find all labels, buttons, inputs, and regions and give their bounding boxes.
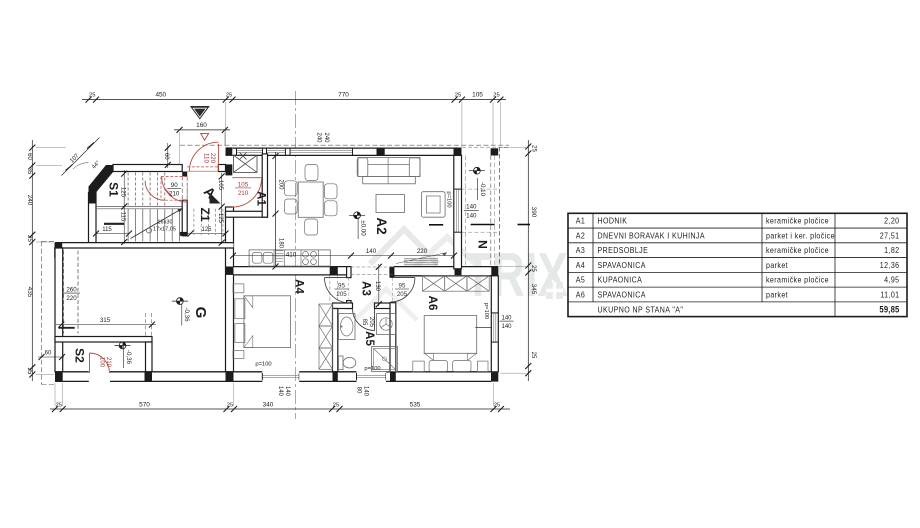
dim diagonal 107 44deg [62,138,102,176]
svg-text:140: 140 [466,204,477,211]
threshold bar terrace [471,224,495,226]
svg-text:315: 315 [100,317,111,324]
label A2 [374,217,389,234]
garage door dashed [63,251,80,334]
svg-text:S1: S1 [107,182,121,197]
dim A2 window 140/140 [464,204,479,220]
svg-text:-0,10: -0,10 [479,182,486,197]
pillar A2 SE [455,269,462,276]
label A4 [293,279,305,294]
label p=100 A6 east [483,303,489,319]
svg-text:A3: A3 [360,281,372,296]
pillar garage NW [55,243,63,248]
svg-text:12,36: 12,36 [880,260,900,270]
wall A1 east [262,154,267,217]
eaves dashed left [42,241,56,384]
stair treads S1 [96,173,223,242]
svg-text:140: 140 [362,386,368,397]
svg-text:220: 220 [209,153,216,164]
svg-text:205: 205 [368,317,374,328]
terrace N dashed boundary [462,147,500,267]
wall A6 north [394,267,498,276]
svg-text:205: 205 [397,291,408,298]
label A3 [360,281,372,296]
svg-text:±0,00: ±0,00 [359,220,366,236]
label p=100 A5 south [364,366,380,372]
svg-text:A5: A5 [363,331,375,346]
dim line right [525,140,537,381]
svg-text:A2: A2 [374,217,389,234]
svg-text:25: 25 [494,402,500,408]
svg-text:25: 25 [26,368,32,375]
wall A1 south [226,211,268,217]
svg-text:parket i ker. pločice: parket i ker. pločice [766,231,835,241]
label A1 [255,191,267,206]
svg-text:130: 130 [374,281,380,292]
wall Z1/G east spine [226,207,234,372]
svg-text:parket: parket [766,260,788,270]
dim line top [82,91,506,102]
sofa A2 [357,158,420,184]
svg-text:200: 200 [278,179,284,190]
wall top main (A1/A2 north) [233,148,462,155]
door entrance 110/220 [187,133,218,171]
dim A5 window 80/140 rot [356,386,369,397]
label S1 [107,182,121,197]
svg-text:25: 25 [455,92,461,98]
section mark A with triangle [201,183,221,203]
svg-text:140: 140 [501,324,512,330]
level mark N -0,10 [469,167,486,200]
svg-text:260: 260 [66,287,77,294]
svg-text:105: 105 [472,91,483,98]
shower A5 [372,347,398,372]
svg-text:A1: A1 [576,216,585,226]
wall corner entrance left [182,172,187,177]
svg-text:25: 25 [493,92,499,98]
svg-text:p=100: p=100 [483,303,489,319]
toilet A5 [339,356,356,370]
pillar bottom A5 west [333,372,338,382]
svg-text:A5: A5 [576,275,586,285]
table row A3 PREDSOBLJE [576,246,900,256]
dim A3 130 [374,264,382,307]
terrace steps symbol [396,253,447,265]
svg-text:25: 25 [227,402,233,408]
svg-text:160: 160 [196,122,207,129]
svg-text:keramičke pločice: keramičke pločice [766,216,829,226]
dining table and chairs [285,165,338,236]
svg-text:105: 105 [238,181,249,188]
label p=100 A4 south [255,362,271,368]
pillar terrace NE [491,148,499,155]
svg-text:4,95: 4,95 [884,275,900,285]
pillar spine at kitchen wall [226,267,234,275]
dashed door opening A6 [391,278,393,303]
svg-text:A4: A4 [576,260,586,270]
wall bottom seg3 [299,372,356,382]
dim S2 60 [38,350,65,360]
pillar top wall mid [377,148,385,155]
svg-text:17x17,05: 17x17,05 [153,227,176,233]
pillar bottom SE [491,372,498,381]
svg-text:Z1: Z1 [198,207,212,221]
north arrow triangle [190,106,210,120]
wall A4/A3 stub top [347,267,351,278]
door S1 90/210 [145,177,187,203]
svg-text:A3: A3 [576,246,586,256]
svg-text:S2: S2 [73,348,87,363]
svg-text:25: 25 [531,145,537,152]
svg-text:410: 410 [286,252,297,259]
wardrobe A4 [319,304,333,369]
pillar bottom spine [226,372,234,382]
dim garage 315 [56,317,156,328]
svg-text:770: 770 [338,91,349,98]
wardrobe A6 [422,276,489,291]
svg-text:A6: A6 [426,296,438,311]
svg-text:95: 95 [399,282,406,289]
wall stair top [113,165,182,172]
label p=100 A2 east [446,191,452,207]
shaft box A1 [234,155,258,172]
svg-text:-0,36: -0,36 [125,350,132,365]
wall A4/A3 stub bottom [347,301,351,309]
dim stair 125/115 [119,170,127,245]
wall Z1 west lower [182,200,187,236]
svg-text:PREDSOBLJE: PREDSOBLJE [598,246,649,256]
eaves dashed top [180,145,509,147]
threshold bar outside right [518,224,531,226]
svg-text:90: 90 [171,182,178,189]
svg-text:140: 140 [366,248,377,255]
window top-left (A1 north) [237,148,263,155]
window A5 south [357,373,387,380]
door A4 95/205 [325,278,350,303]
pillar spine at garage wall [226,243,234,248]
svg-text:p=100: p=100 [364,366,380,372]
dim A2 200/180 [273,152,284,270]
pillar A6 north-east [491,267,498,276]
level mark A2 +-0,00 [349,212,366,239]
wall bottom seg1 (S2 west part) [55,372,89,382]
wall stair west [89,193,97,248]
svg-text:140: 140 [277,386,283,397]
svg-text:60: 60 [163,153,169,160]
svg-text:11,01: 11,01 [880,290,899,300]
svg-text:205: 205 [336,291,347,298]
svg-text:210: 210 [238,190,249,197]
stair text 16x30 [153,220,176,233]
svg-text:16x30: 16x30 [157,220,172,226]
dashed beam over A3 [351,267,394,275]
svg-text:1,82: 1,82 [884,246,899,256]
dim A6 window 140/140 [500,316,514,331]
svg-text:25: 25 [226,92,232,98]
wall A6 east [491,276,498,372]
svg-text:125: 125 [217,213,223,224]
svg-text:SPAVAONICA: SPAVAONICA [598,260,647,270]
pillar top wall NE corner A2 [454,148,462,155]
dim Z1 125 horiz [187,227,228,237]
dim ext lines right [500,148,526,374]
wall G/S2 divider [55,337,152,343]
label Z1 [198,207,212,221]
dim ext lines left [36,148,66,375]
svg-text:210: 210 [169,191,180,198]
level mark G -0,36 [172,298,190,326]
svg-text:140: 140 [284,386,290,397]
wall bottom seg2 [110,372,262,382]
window A4 south [262,373,299,380]
wall S2 east [146,342,153,372]
table row total [598,304,900,315]
pilaster below garage NW pillar [55,248,62,257]
wall A2 east [454,155,462,268]
svg-text:HODNIK: HODNIK [598,216,628,226]
washing machine A5 [377,314,396,335]
level mark S2 -0,36 [115,342,132,368]
label N [476,240,490,249]
svg-text:N: N [476,240,490,249]
svg-text:27,51: 27,51 [880,231,900,241]
window break mark top wall [240,153,247,160]
dim line left [26,140,36,381]
wall garage west [55,248,63,372]
svg-text:A2: A2 [576,231,585,241]
section line [295,91,297,419]
label A6 [426,296,438,311]
wall A5/A6 divider [390,303,396,372]
svg-text:p=100: p=100 [446,191,452,207]
pillar stair west below diagonal [89,193,97,204]
label A5 [363,331,375,346]
svg-text:240: 240 [323,132,329,143]
pillar Z1 east lower [226,164,233,175]
svg-text:KUPAONICA: KUPAONICA [598,275,643,285]
table row A6 SPAVAONICA [576,290,900,300]
label G [192,307,209,319]
window top (A2 north) [290,148,353,155]
wall A5 north right seg [375,303,391,309]
watermark logo [355,229,568,320]
dashed ext S2 east up [146,313,152,337]
table row A1 HODNIK [576,216,900,226]
svg-text:110: 110 [202,153,209,163]
svg-text:60: 60 [26,153,32,160]
door S2 100/210 [90,353,112,373]
label S2 [73,348,87,363]
table frame [568,213,907,316]
svg-text:A6: A6 [576,290,586,300]
wall A5 north left seg [333,303,353,309]
svg-text:p=100: p=100 [255,362,271,368]
svg-text:UKUPNO NP STANA "A": UKUPNO NP STANA "A" [598,305,684,315]
table row A4 SPAVAONICA [576,260,900,270]
pillar garage top mid [145,243,153,248]
svg-text:125: 125 [201,227,212,233]
svg-text:59,85: 59,85 [879,304,899,315]
svg-text:390: 390 [530,207,537,218]
dim line bottom [50,401,510,412]
svg-text:115: 115 [102,227,112,233]
wall garage top [55,243,234,248]
svg-text:100: 100 [98,357,104,368]
svg-text:A1: A1 [255,191,267,206]
wall stub right of entrance door [218,165,225,172]
dim kitchen 410/140/220 [230,248,457,258]
kitchen counter with sink and stove [249,250,330,266]
svg-text:340: 340 [263,401,274,408]
dim A4 window 140/140 rot [277,386,290,397]
table row A2 DNEVNI BORAVAK I KUHINJA [576,231,900,241]
wall A3/A6 stub top [389,267,394,278]
dim ext lines bottom [55,383,494,406]
svg-text:535: 535 [410,401,421,408]
svg-text:435: 435 [26,287,33,298]
svg-text:25: 25 [89,92,95,98]
pillar kitchen south [330,267,338,275]
door A1 105/210 [232,178,261,207]
svg-text:85: 85 [361,319,367,326]
svg-text:25: 25 [26,235,32,242]
svg-text:25: 25 [530,352,536,359]
pillar Z1 east upper [226,147,233,156]
table row A5 KUPAONICA [576,275,900,285]
pillar bottom S2 east [145,372,153,382]
dim stair 115 horiz [93,227,132,237]
svg-text:25: 25 [333,402,339,408]
svg-text:25: 25 [56,402,62,408]
svg-text:240: 240 [316,132,322,143]
pillar bottom A5 east [390,372,396,382]
terrace door threshold bar [429,224,443,226]
svg-text:220: 220 [66,295,77,302]
svg-text:345: 345 [530,284,537,295]
svg-text:SPAVAONICA: SPAVAONICA [598,290,647,300]
svg-text:180: 180 [278,238,284,249]
svg-text:80: 80 [356,387,362,394]
pillar bottom SW [55,372,63,382]
svg-text:140: 140 [466,212,477,219]
svg-text:105: 105 [217,180,223,191]
window A6 east [491,313,498,342]
door A6 95/205 [391,278,415,302]
handrail bar garage [59,327,75,329]
svg-text:DNEVNI BORAVAK I KUHINJA: DNEVNI BORAVAK I KUHINJA [598,231,706,241]
corner Z1 south-west [180,232,187,236]
wall kitchen south (A2/A4) [234,267,351,275]
pillar stair west bottom [89,243,97,248]
dim 240/240 rotated [316,132,329,143]
svg-text:570: 570 [139,401,150,408]
svg-text:95: 95 [338,282,345,289]
wall stair diagonal [89,165,114,193]
svg-text:240: 240 [26,195,33,206]
washbasin A5 [339,314,356,340]
door A5 85/205 [353,309,375,331]
wall bottom seg4 [386,372,491,382]
svg-text:parket: parket [766,290,788,300]
dashed wall line through stair door [182,176,187,200]
dashed wall continuation A4 corner [330,275,338,303]
svg-text:210: 210 [105,357,111,368]
svg-text:keramičke pločice: keramičke pločice [766,275,829,285]
bed A4 [233,284,291,359]
svg-text:60: 60 [45,350,52,356]
window top (kitchen north) [267,148,286,155]
svg-text:-0,36: -0,36 [183,307,190,322]
dim ext lines top [226,102,501,147]
svg-text:25: 25 [530,265,536,272]
coffee table A2 [376,195,404,213]
bed A6 [413,316,492,372]
svg-text:450: 450 [155,91,166,98]
armchair A2 [421,192,445,218]
svg-text:140: 140 [501,316,512,322]
svg-text:35: 35 [26,167,32,174]
dashed door opening A4 [348,278,350,301]
svg-text:keramičke pločice: keramičke pločice [766,246,829,256]
svg-text:115: 115 [119,212,125,222]
svg-text:2,20: 2,20 [884,216,900,226]
svg-text:125: 125 [119,187,125,198]
svg-text:A4: A4 [293,279,305,294]
dim 60 stair top [163,143,171,168]
svg-text:220: 220 [417,248,428,255]
wall A5 west [333,309,338,372]
svg-text:G: G [192,307,209,319]
dim Z1 105/125 vert [217,173,225,246]
window A2 east [454,189,461,232]
dim entrance 160 [174,122,230,165]
